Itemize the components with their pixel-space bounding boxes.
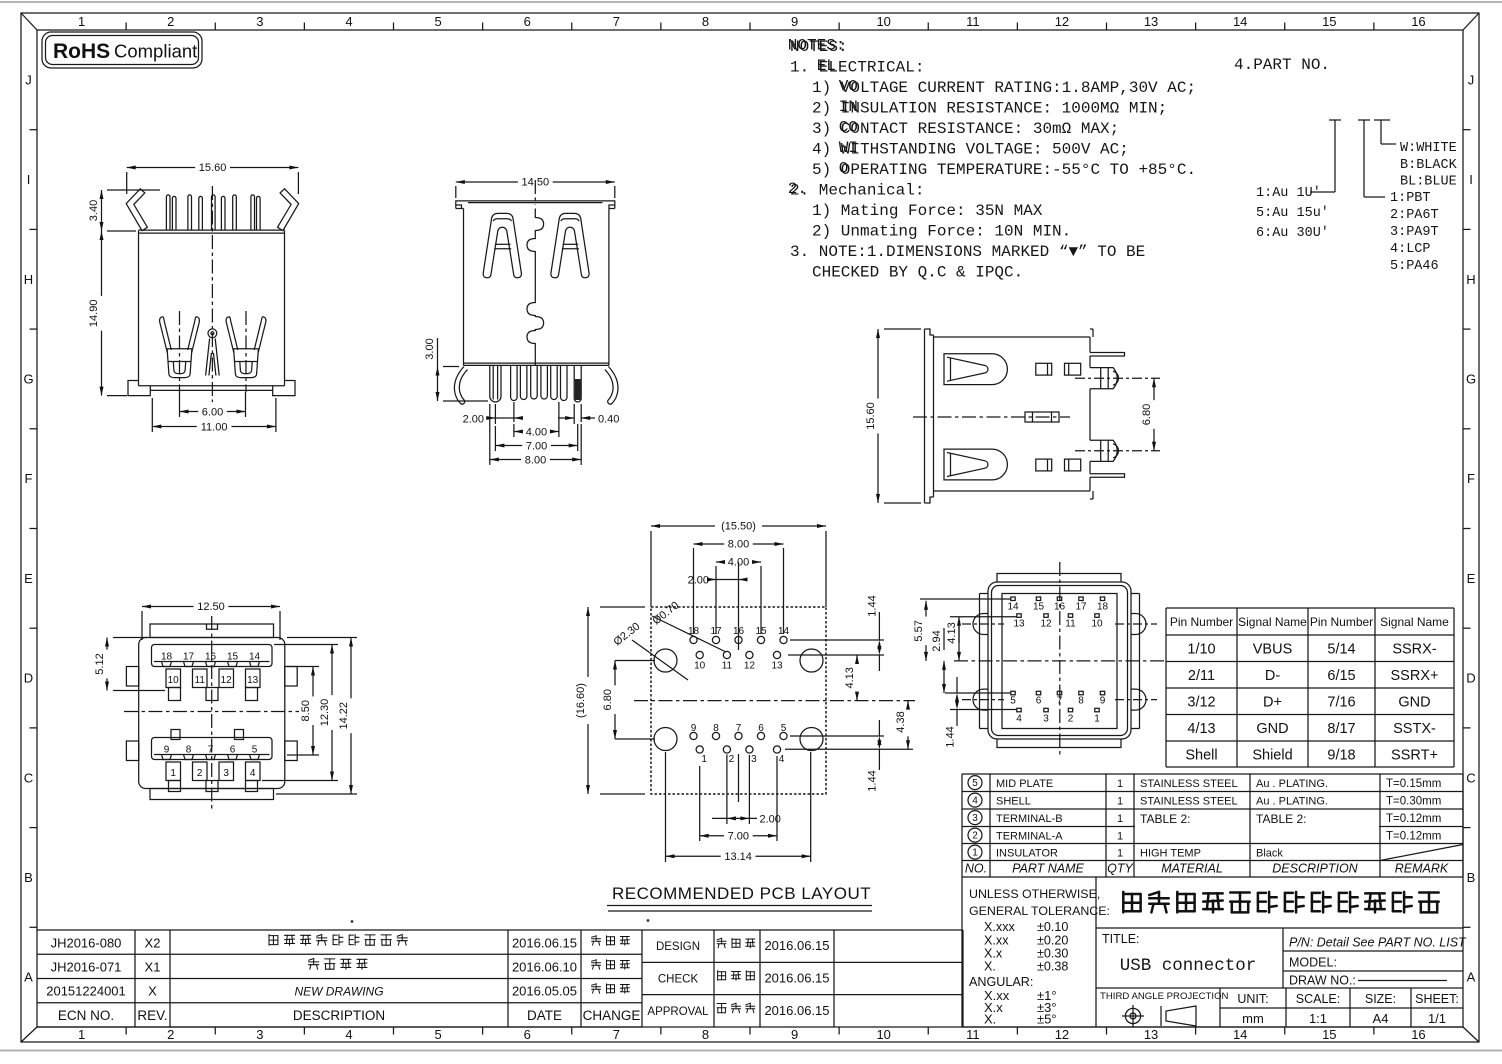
svg-text:2.94: 2.94 [931,630,943,651]
svg-text:3: 3 [751,754,757,765]
svg-text:CHANGE: CHANGE [583,1008,641,1023]
svg-text:1: 1 [1117,830,1123,842]
svg-text:SSRX-: SSRX- [1392,642,1436,658]
svg-text:1: 1 [701,754,707,765]
svg-text:3: 3 [223,768,229,779]
svg-text:1: 1 [170,768,176,779]
svg-text:E: E [24,571,33,586]
svg-text:E: E [1467,571,1476,586]
svg-text:6: 6 [230,745,236,756]
svg-text:SHEET:: SHEET: [1415,992,1459,1006]
svg-text:8: 8 [702,1027,709,1042]
svg-text:2016.06.15: 2016.06.15 [764,938,829,953]
svg-text:6: 6 [1036,696,1042,707]
svg-text:5) OPERATING TEMPERATURE:-55°C: 5) OPERATING TEMPERATURE:-55°C TO +85°C. [812,161,1196,179]
svg-text:2) INSULATION RESISTANCE: 1000: 2) INSULATION RESISTANCE: 1000MΩ MIN; [812,100,1167,118]
svg-text:1: 1 [972,848,978,859]
svg-text:Shield: Shield [1252,748,1292,764]
svg-text:A: A [1467,970,1476,985]
svg-text:B: B [1467,870,1476,885]
svg-text:6: 6 [758,723,764,734]
svg-text:±0.20: ±0.20 [1037,934,1068,948]
svg-text:2) Unmating Force: 10N MIN.: 2) Unmating Force: 10N MIN. [812,223,1071,241]
svg-text:2: 2 [197,768,203,779]
svg-text:9/18: 9/18 [1327,748,1355,764]
svg-text:RoHS: RoHS [53,40,110,63]
svg-text:12: 12 [1040,619,1052,630]
svg-text:Au . PLATING.: Au . PLATING. [1256,795,1328,807]
svg-text:4/13: 4/13 [1187,721,1215,737]
svg-text:T=0.12mm: T=0.12mm [1386,813,1441,825]
svg-text:5: 5 [781,723,787,734]
svg-text:4:LCP: 4:LCP [1390,242,1431,257]
svg-text:4: 4 [779,754,785,765]
svg-text:5.12: 5.12 [94,653,106,674]
svg-text:8.00: 8.00 [525,455,546,467]
svg-text:C: C [1466,770,1475,785]
svg-text:DESIGN: DESIGN [656,941,700,953]
svg-text:DESCRIPTION: DESCRIPTION [1272,862,1358,876]
svg-text:REMARK: REMARK [1395,862,1449,876]
svg-text:G: G [1466,371,1476,386]
svg-text:15: 15 [227,652,239,663]
svg-text:X.xx: X.xx [984,934,1009,948]
svg-text:5.57: 5.57 [913,620,925,641]
svg-text:GENERAL TOLERANCE:: GENERAL TOLERANCE: [969,904,1110,918]
svg-text:1.44: 1.44 [867,595,879,616]
svg-text:5:Au 15uʹ: 5:Au 15uʹ [1256,206,1329,221]
svg-text:MODEL:: MODEL: [1289,956,1337,970]
svg-text:GND: GND [1398,695,1430,711]
svg-text:D: D [1466,671,1475,686]
svg-text:Au . PLATING.: Au . PLATING. [1256,778,1328,790]
svg-text:12: 12 [1055,1027,1069,1042]
svg-text:8: 8 [186,745,192,756]
svg-text:13: 13 [1144,1027,1158,1042]
svg-text:TITLE:: TITLE: [1102,932,1140,946]
svg-text:20151224001: 20151224001 [46,984,126,999]
svg-text:X.: X. [984,1012,996,1027]
svg-text:DRAW NO.:: DRAW NO.: [1289,974,1356,988]
svg-text:JH2016-071: JH2016-071 [51,960,122,975]
svg-text:A4: A4 [1373,1011,1389,1026]
svg-text:7: 7 [613,1027,620,1042]
svg-text:VBUS: VBUS [1253,642,1293,658]
svg-text:X1: X1 [145,960,161,975]
svg-text:8: 8 [713,723,719,734]
svg-text:(16.60): (16.60) [575,683,587,718]
svg-text:4: 4 [250,768,256,779]
svg-text:10: 10 [694,661,706,672]
svg-text:15: 15 [1322,1027,1336,1042]
svg-text:5:PA46: 5:PA46 [1390,259,1439,274]
svg-text:4.13: 4.13 [844,667,856,688]
svg-text:11: 11 [1065,619,1076,630]
svg-text:2.00: 2.00 [760,814,781,826]
svg-text:17: 17 [183,652,195,663]
svg-text:1: 1 [78,14,85,29]
svg-text:15.60: 15.60 [199,162,227,174]
svg-text:RECOMMENDED PCB LAYOUT: RECOMMENDED PCB LAYOUT [612,884,871,903]
svg-text:Compliant: Compliant [114,41,197,62]
svg-text:5: 5 [972,778,978,789]
svg-text:D: D [24,671,33,686]
svg-text:TABLE 2:: TABLE 2: [1140,812,1190,826]
svg-text:NO.: NO. [965,862,987,876]
svg-text:I: I [1469,172,1473,187]
svg-text:13: 13 [1013,619,1025,630]
svg-text:IN: IN [839,98,858,116]
svg-text:8.50: 8.50 [300,700,312,721]
svg-text:8: 8 [1078,696,1084,707]
svg-text:8.00: 8.00 [728,539,749,551]
svg-text:14.90: 14.90 [88,300,100,328]
svg-text:6:Au 30Uʹ: 6:Au 30Uʹ [1256,226,1329,241]
svg-text:1: 1 [1117,847,1123,859]
svg-text:9: 9 [791,14,798,29]
svg-text:4: 4 [345,1027,352,1042]
svg-text:W:WHITE: W:WHITE [1400,141,1457,156]
svg-text:3) CONTACT RESISTANCE: 30mΩ MA: 3) CONTACT RESISTANCE: 30mΩ MAX; [812,120,1119,138]
svg-text:4) WITHSTANDING VOLTAGE: 500V: 4) WITHSTANDING VOLTAGE: 500V AC; [812,141,1129,159]
svg-text:12.50: 12.50 [197,601,225,613]
svg-text:6.80: 6.80 [602,689,614,710]
svg-text:mm: mm [1242,1011,1264,1026]
svg-text:1/10: 1/10 [1187,642,1215,658]
svg-text:HIGH TEMP: HIGH TEMP [1140,847,1201,859]
svg-text:2:PA6T: 2:PA6T [1390,208,1439,223]
svg-text:3: 3 [972,813,978,824]
svg-text:BL:BLUE: BL:BLUE [1400,175,1457,190]
svg-text:12: 12 [221,675,233,686]
svg-text:4.38: 4.38 [895,711,907,732]
svg-text:SCALE:: SCALE: [1296,992,1340,1006]
svg-text:SSRT+: SSRT+ [1391,748,1438,764]
svg-text:D-: D- [1265,668,1280,684]
svg-text:5: 5 [252,745,258,756]
svg-text:11: 11 [722,661,733,672]
svg-text:CO: CO [839,118,858,136]
svg-text:11.00: 11.00 [201,422,228,434]
svg-text:1:PBT: 1:PBT [1390,191,1431,206]
svg-text:UNIT:: UNIT: [1237,992,1268,1006]
svg-text:4.13: 4.13 [946,622,958,643]
svg-text:3. NOTE:1.DIMENSIONS MARKED “▼: 3. NOTE:1.DIMENSIONS MARKED “▼” TO BE [790,243,1145,261]
svg-text:SIZE:: SIZE: [1365,992,1396,1006]
svg-text:6: 6 [524,1027,531,1042]
svg-text:11: 11 [966,1027,980,1042]
svg-text:SSTX-: SSTX- [1393,721,1436,737]
svg-text:7/16: 7/16 [1327,695,1355,711]
svg-text:14.22: 14.22 [338,702,350,730]
svg-text:3.00: 3.00 [424,338,436,359]
svg-text:14: 14 [1007,602,1019,613]
svg-text:THIRD ANGLE PROJECTION: THIRD ANGLE PROJECTION [1100,991,1229,1002]
svg-text:9: 9 [1100,696,1106,707]
svg-text:X.xxx: X.xxx [984,920,1015,934]
svg-text:2016.05.05: 2016.05.05 [512,984,577,999]
svg-text:D+: D+ [1263,695,1282,711]
svg-text:2/11: 2/11 [1188,668,1215,684]
svg-text:Pin Number: Pin Number [1170,615,1233,629]
svg-text:STAINLESS STEEL: STAINLESS STEEL [1140,795,1238,807]
svg-text:1.44: 1.44 [867,770,879,791]
svg-text:WI: WI [839,139,858,157]
svg-text:3: 3 [256,14,263,29]
svg-text:4: 4 [345,14,352,29]
svg-text:4: 4 [972,796,978,807]
svg-text:7: 7 [736,723,742,734]
svg-text:2016.06.15: 2016.06.15 [764,1003,829,1018]
svg-text:1:Au 1Uʹ: 1:Au 1Uʹ [1256,186,1321,201]
svg-text:B: B [24,870,33,885]
svg-text:PART NAME: PART NAME [1012,862,1084,876]
svg-text:2: 2 [729,754,735,765]
svg-text:O: O [839,159,849,177]
svg-text:I: I [27,172,31,187]
svg-text:ANGULAR:: ANGULAR: [969,975,1033,989]
svg-text:3.40: 3.40 [88,200,100,221]
svg-text:T=0.15mm: T=0.15mm [1386,778,1441,790]
svg-text:6.80: 6.80 [1141,404,1153,425]
svg-text:5: 5 [434,1027,441,1042]
svg-text:8: 8 [702,14,709,29]
svg-text:14: 14 [1233,1027,1247,1042]
svg-text:5: 5 [1010,696,1016,707]
svg-text:4.00: 4.00 [526,427,547,439]
svg-text:±0.30: ±0.30 [1037,947,1068,961]
svg-text:2: 2 [167,14,174,29]
svg-text:P/N: Detail See PART NO. LIST: P/N: Detail See PART NO. LIST [1289,936,1467,950]
svg-text:X.: X. [984,960,996,974]
svg-text:2: 2 [1068,714,1074,725]
svg-text:±0.10: ±0.10 [1037,920,1068,934]
svg-text:18: 18 [1097,602,1109,613]
svg-text:1. ELECTRICAL:: 1. ELECTRICAL: [790,59,924,77]
svg-text:2.00: 2.00 [463,413,484,425]
svg-text:2016.06.10: 2016.06.10 [512,960,577,975]
svg-text:CHECKED BY Q.C & IPQC.: CHECKED BY Q.C & IPQC. [812,264,1023,282]
svg-text:TABLE 2:: TABLE 2: [1256,812,1306,826]
svg-text:Black: Black [1256,847,1283,859]
svg-text:X: X [148,984,157,999]
svg-text:SSRX+: SSRX+ [1391,668,1439,684]
svg-text:14: 14 [1233,14,1247,29]
svg-text:Signal Name: Signal Name [1238,615,1307,629]
svg-text:9: 9 [164,745,170,756]
svg-text:J: J [1468,72,1475,87]
svg-text:3: 3 [1043,714,1049,725]
svg-text:9: 9 [791,1027,798,1042]
svg-text:15: 15 [1322,14,1336,29]
svg-text:5: 5 [434,14,441,29]
svg-text:11: 11 [195,675,206,686]
svg-text:15.60: 15.60 [865,402,877,430]
svg-text:15: 15 [1033,602,1045,613]
svg-text:(15.50): (15.50) [721,521,756,533]
svg-text:QTY: QTY [1107,862,1134,876]
svg-text:JH2016-080: JH2016-080 [51,936,122,951]
svg-text:5/14: 5/14 [1327,642,1355,658]
svg-text:UNLESS OTHERWISE,: UNLESS OTHERWISE, [969,887,1100,901]
svg-text:NOTES:: NOTES: [788,36,846,54]
svg-text:2: 2 [167,1027,174,1042]
svg-text:1: 1 [1117,795,1123,807]
svg-text:18: 18 [161,652,173,663]
svg-text:T=0.30mm: T=0.30mm [1386,795,1441,807]
svg-text:7: 7 [208,745,214,756]
svg-text:APPROVAL: APPROVAL [647,1006,709,1018]
svg-text:A: A [24,970,33,985]
svg-text:9: 9 [691,723,697,734]
svg-text:±0.38: ±0.38 [1037,960,1068,974]
svg-text:1/1: 1/1 [1428,1011,1446,1026]
svg-text:1.44: 1.44 [945,726,957,747]
svg-text:MATERIAL: MATERIAL [1161,862,1223,876]
svg-text:2.: 2. [788,180,807,198]
svg-text:10: 10 [876,1027,890,1042]
svg-text:8/17: 8/17 [1327,721,1355,737]
svg-text:VO: VO [839,77,858,95]
svg-text:Signal Name: Signal Name [1380,615,1449,629]
svg-text:Shell: Shell [1185,748,1217,764]
svg-text:6/15: 6/15 [1327,668,1355,684]
svg-text:SHELL: SHELL [996,795,1031,807]
svg-text:0.40: 0.40 [598,413,619,425]
svg-text:T=0.12mm: T=0.12mm [1386,830,1441,842]
svg-text:STAINLESS STEEL: STAINLESS STEEL [1140,778,1238,790]
svg-text:F: F [1467,471,1475,486]
svg-text:14: 14 [249,652,261,663]
svg-text:4.PART NO.: 4.PART NO. [1234,56,1330,74]
svg-text:USB connector: USB connector [1120,956,1257,976]
svg-text:13.14: 13.14 [724,851,752,863]
svg-text:12.30: 12.30 [319,699,331,727]
svg-text:17: 17 [1075,602,1087,613]
svg-text:10: 10 [876,14,890,29]
svg-text:13: 13 [771,661,783,672]
svg-text:3: 3 [256,1027,263,1042]
svg-text:DATE: DATE [527,1008,562,1023]
svg-text:X.x: X.x [984,947,1003,961]
svg-text:1: 1 [78,1027,85,1042]
svg-text:13: 13 [247,675,259,686]
svg-text:J: J [25,72,32,87]
svg-text:10: 10 [1091,619,1103,630]
svg-text:7: 7 [613,14,620,29]
svg-text:13: 13 [1144,14,1158,29]
svg-text:2. Mechanical:: 2. Mechanical: [790,182,924,200]
svg-text:10: 10 [168,675,180,686]
svg-text:1:1: 1:1 [1309,1011,1327,1026]
svg-text:GND: GND [1256,721,1288,737]
svg-text:H: H [1466,272,1475,287]
svg-text:2.00: 2.00 [688,575,709,587]
svg-text:CHECK: CHECK [658,974,699,986]
svg-text:DESCRIPTION: DESCRIPTION [293,1008,385,1023]
svg-text:16: 16 [1411,14,1425,29]
svg-text:4: 4 [1016,714,1022,725]
svg-text:B:BLACK: B:BLACK [1400,158,1458,173]
svg-text:2016.06.15: 2016.06.15 [512,936,577,951]
svg-text:3/12: 3/12 [1187,695,1215,711]
svg-text:X2: X2 [145,936,161,951]
svg-text:EL: EL [817,57,836,75]
svg-text:2016.06.15: 2016.06.15 [764,971,829,986]
svg-text:11: 11 [966,14,980,29]
svg-text:REV.: REV. [137,1008,167,1023]
svg-text:MID PLATE: MID PLATE [996,778,1053,790]
svg-text:F: F [25,471,33,486]
svg-text:3:PA9T: 3:PA9T [1390,225,1439,240]
svg-text:1: 1 [1117,813,1123,825]
svg-text:16: 16 [1411,1027,1425,1042]
svg-text:TERMINAL-A: TERMINAL-A [996,830,1063,842]
svg-text:6.00: 6.00 [202,407,223,419]
svg-text:1) VOLTAGE CURRENT RATING:1.8A: 1) VOLTAGE CURRENT RATING:1.8AMP,30V AC; [812,79,1196,97]
svg-text:ECN NO.: ECN NO. [58,1008,114,1023]
svg-text:1: 1 [1094,714,1100,725]
svg-text:G: G [23,371,33,386]
svg-text:16: 16 [205,652,217,663]
svg-text:14.50: 14.50 [522,177,550,189]
svg-text:C: C [24,770,33,785]
svg-text:NEW DRAWING: NEW DRAWING [294,985,383,999]
svg-text:7.00: 7.00 [526,441,547,453]
svg-text:12: 12 [1055,14,1069,29]
svg-text:1: 1 [1117,778,1123,790]
svg-text:INSULATOR: INSULATOR [996,847,1058,859]
svg-text:H: H [24,272,33,287]
svg-text:TERMINAL-B: TERMINAL-B [996,813,1063,825]
svg-text:±5°: ±5° [1037,1012,1057,1027]
svg-text:7.00: 7.00 [728,830,749,842]
svg-text:Pin Number: Pin Number [1310,615,1373,629]
svg-text:1) Mating Force: 35N MAX: 1) Mating Force: 35N MAX [812,202,1043,220]
svg-text:12: 12 [744,661,756,672]
svg-text:2: 2 [972,831,978,842]
svg-text:6: 6 [524,14,531,29]
